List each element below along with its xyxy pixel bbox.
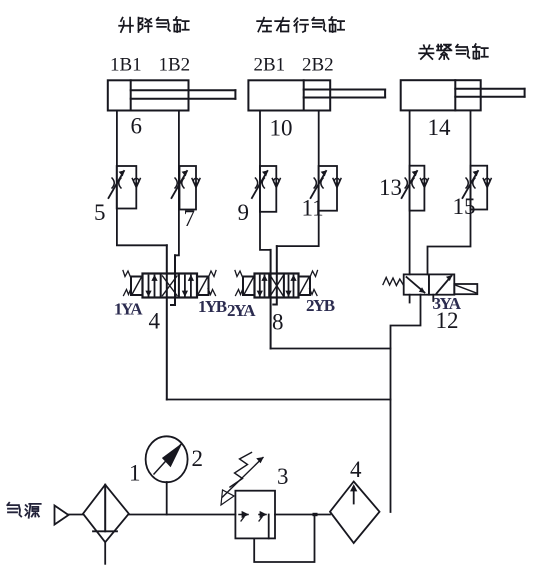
char you (275, 18, 289, 32)
flow valve 13 (402, 166, 429, 211)
wire cyl6 right port down (175, 111, 179, 256)
svg-text:1B2: 1B2 (159, 55, 191, 76)
svg-text:13: 13 (379, 175, 402, 200)
wire cyl14 right port down (428, 111, 471, 275)
wire main line filter to regulator (129, 514, 236, 516)
wire cyl10 left port down (260, 111, 271, 250)
svg-text:12: 12 (436, 308, 459, 333)
svg-text:5: 5 (94, 200, 106, 225)
pressure gauge G2 (146, 436, 188, 514)
svg-text:1YA: 1YA (114, 300, 143, 319)
label air-source (7, 503, 40, 518)
svg-text:1: 1 (129, 461, 141, 486)
wire valve12 exhaust stub (409, 295, 411, 303)
wire valve12 stub2 (432, 295, 434, 301)
char jiang (139, 18, 152, 32)
char yuan (25, 504, 40, 518)
wire valve4 exhaust stub (171, 255, 175, 305)
cylinder 10 body (248, 80, 385, 110)
wire cyl10 right port down (277, 111, 319, 247)
char gang (329, 17, 344, 32)
flow valve 7 (172, 166, 201, 210)
char gang (174, 17, 189, 32)
lubricator L4 (330, 482, 380, 544)
wire valve8 P line down (270, 250, 272, 349)
wire valve4 P branch to supply (167, 399, 391, 401)
wire valve12 P down to supply (391, 295, 421, 512)
svg-text:11: 11 (302, 196, 324, 221)
char qi (456, 45, 469, 58)
svg-text:9: 9 (238, 200, 250, 225)
svg-text:1YB: 1YB (198, 297, 227, 316)
wire source to filter (69, 514, 84, 516)
svg-text:15: 15 (453, 194, 476, 219)
flow valve 9 (252, 166, 280, 212)
wire valve4 P line down (166, 245, 168, 399)
svg-text:2B1: 2B1 (254, 55, 286, 76)
svg-text:3: 3 (277, 464, 289, 489)
char zuo (257, 18, 271, 32)
char jin (437, 45, 451, 59)
svg-text:2YA: 2YA (227, 301, 256, 320)
svg-text:1B1: 1B1 (110, 55, 142, 76)
regulator adjust spring (221, 453, 263, 506)
wire regulator to lubricator (275, 514, 330, 516)
svg-text:8: 8 (272, 310, 284, 335)
title clamp-cylinder (419, 44, 488, 59)
title lifting-cylinder (Chinese hand-drawn) (119, 17, 189, 32)
flow valve 5 (109, 166, 141, 209)
char xing (294, 18, 308, 32)
title traverse-cylinder (257, 17, 344, 32)
char gang (473, 44, 488, 59)
valve U12 3/2 solenoid valve (383, 274, 477, 294)
svg-text:2: 2 (192, 446, 204, 471)
filter F1 (83, 485, 129, 564)
air source triangle (55, 506, 69, 525)
char jia (419, 45, 433, 59)
char qi (7, 503, 21, 517)
svg-text:4: 4 (350, 457, 362, 482)
flow valve 15 (463, 166, 492, 210)
cylinder 6 body (108, 80, 236, 110)
wire cyl6 left port down to valve4 (117, 111, 167, 246)
char qi (157, 18, 170, 31)
svg-text:6: 6 (131, 114, 143, 139)
regulator pilot loop (254, 515, 314, 563)
valve U4 5/2 solenoid valve (123, 271, 216, 298)
flow valve 11 (311, 166, 341, 211)
wire cyl14 left port down to valve12 (409, 111, 411, 275)
svg-text:4: 4 (149, 309, 161, 334)
svg-text:10: 10 (270, 116, 293, 141)
cylinder 14 body (401, 80, 525, 110)
junction (313, 513, 318, 516)
svg-text:7: 7 (184, 206, 196, 231)
char qi (312, 18, 325, 31)
valve U8 5/2 solenoid valve (235, 271, 318, 298)
regulator R3 (235, 491, 275, 539)
svg-text:2YB: 2YB (306, 296, 335, 315)
wire valve8 P branch to supply (271, 348, 391, 350)
svg-text:14: 14 (428, 115, 452, 140)
svg-text:2B2: 2B2 (302, 55, 334, 76)
wire valve8 exhaust stub (273, 246, 277, 304)
char sheng (119, 18, 133, 32)
